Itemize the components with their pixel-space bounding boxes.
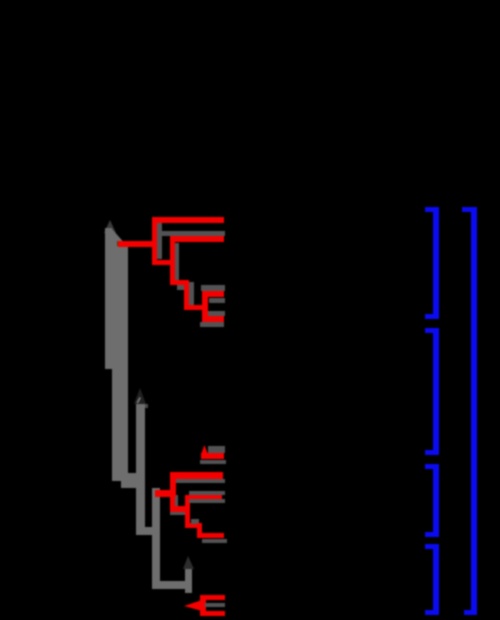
blue outer bracket top serif xyxy=(462,207,477,212)
gray tip B xyxy=(157,231,225,236)
connector horizontal col2 to v3 xyxy=(138,527,160,535)
red tip 533 xyxy=(197,533,224,538)
red vertical V2 xyxy=(170,236,176,285)
gray echo Vm right xyxy=(175,495,178,511)
gray echo below hm2 xyxy=(189,499,225,503)
trunk upper narrow column xyxy=(105,228,113,369)
gray echo below hm-top xyxy=(174,479,225,483)
red incoming hm-in xyxy=(155,490,176,497)
blue bracket B3 vertical xyxy=(433,464,439,537)
blue bracket B1 bottom serif xyxy=(425,314,439,319)
red tip A xyxy=(152,217,225,223)
narrow column 2 xyxy=(136,404,145,535)
red elbow R10 xyxy=(184,305,208,311)
red elbow R7 xyxy=(152,260,176,266)
blue bracket B1 vertical xyxy=(433,207,439,319)
blue bracket B3 bottom serif xyxy=(425,532,439,537)
gray echo above hm2 xyxy=(189,491,225,495)
gray echo below Vm elbow xyxy=(170,512,188,516)
red left-arrow incoming bottom xyxy=(184,599,203,612)
red elbow R8 xyxy=(170,280,190,286)
gray echo V3s xyxy=(189,282,194,305)
trunk slant widening xyxy=(112,228,128,248)
trunk merge horizontal 2 xyxy=(121,481,145,488)
trunk merge horizontal 1 xyxy=(112,473,145,481)
blue bracket B4 bottom serif xyxy=(425,610,439,615)
gray echo below E xyxy=(209,298,225,303)
red tip C xyxy=(170,236,225,242)
red tip Cbot xyxy=(200,611,225,616)
red tip h1 xyxy=(201,453,224,459)
blue bracket B4 vertical xyxy=(433,544,439,615)
gray echo below R8 xyxy=(177,285,193,290)
blue outer bracket bottom serif xyxy=(464,610,477,615)
gray echo h1s xyxy=(200,460,226,465)
blue bracket B4 top serif xyxy=(425,544,439,549)
trunk lower column xyxy=(112,369,128,481)
red vertical Vm xyxy=(170,472,176,512)
gray tip D xyxy=(201,285,226,291)
blue bracket B3 top serif xyxy=(425,464,439,469)
gray echo elbow xyxy=(191,519,199,524)
red vertical VC xyxy=(200,595,206,617)
red tip hm2 xyxy=(185,495,222,500)
dark block at col2 top right xyxy=(145,404,148,408)
red vertical V3 xyxy=(184,280,190,311)
blue bracket B2 vertical xyxy=(433,328,439,456)
gray echo Cmid xyxy=(205,603,225,608)
trunk wide column xyxy=(112,245,128,369)
gray echo below tip533 xyxy=(202,539,227,543)
red vertical Vm2 xyxy=(185,495,190,528)
U right vertical xyxy=(185,569,192,593)
U bottom horizontal xyxy=(152,581,192,589)
blue outer bracket vertical xyxy=(471,207,477,615)
red tip hm-top xyxy=(170,472,223,479)
red vertical V1 xyxy=(152,217,158,265)
gray echo V2s xyxy=(175,243,179,281)
red tip G xyxy=(202,316,224,323)
red vertical V4 xyxy=(202,291,208,322)
gray echo V1s xyxy=(157,222,162,260)
blue bracket B2 bottom serif xyxy=(425,450,439,455)
red vertical Vm3 xyxy=(197,523,202,538)
red tip Ctop xyxy=(200,595,225,600)
gray above h1 xyxy=(208,446,226,453)
olive speck at stem start xyxy=(117,241,121,246)
red stem R3 xyxy=(118,241,154,247)
gray tip F xyxy=(208,311,226,316)
red up-arrow above h1 xyxy=(201,445,208,455)
dark arrow above U right vertical xyxy=(183,556,195,570)
blue bracket B1 top serif xyxy=(425,207,439,212)
blue bracket B2 top serif xyxy=(425,328,439,333)
trunk arrow tip (dark) xyxy=(104,220,116,234)
dark arrow above col2 xyxy=(134,388,147,405)
red elbow Vm bottom xyxy=(170,506,191,512)
red tip E xyxy=(202,291,224,297)
gray echo below G xyxy=(200,322,224,327)
red elbow elb1 xyxy=(185,523,201,528)
vertical 3 xyxy=(152,488,160,589)
